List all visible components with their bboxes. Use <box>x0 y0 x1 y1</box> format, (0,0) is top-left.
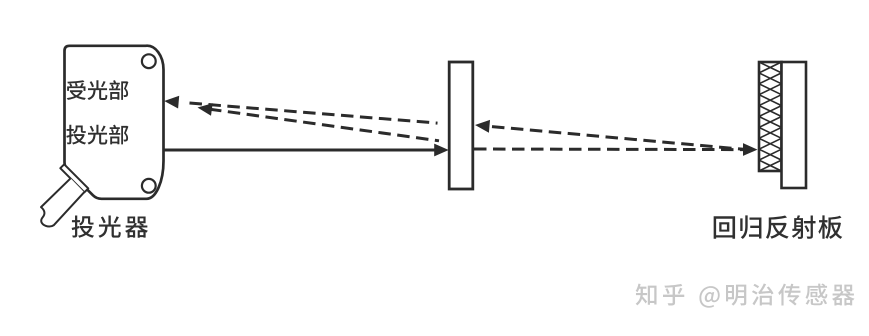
arrowhead into receiver (lower) <box>198 103 213 116</box>
solid beam arrowhead at target <box>434 144 449 157</box>
watermark 知乎 @明治传感器 <box>636 284 657 306</box>
screw hole top <box>142 54 156 68</box>
label 投光器 (projector) <box>72 215 94 237</box>
arrowhead into reflector <box>743 143 758 156</box>
sensor body (photoelectric head) <box>65 46 164 199</box>
cable with break end <box>41 178 84 226</box>
dashed beam reflector-to-object wire <box>489 126 749 150</box>
arrowhead at object right side <box>475 120 490 133</box>
dashed beam object-to-reflector wire <box>474 148 743 152</box>
solid emitted-beam wire <box>164 149 437 152</box>
dashed return beam lower-left wire <box>209 109 439 141</box>
screw hole bottom <box>142 179 156 193</box>
detected object (vertical plate) <box>449 62 473 189</box>
reflector backing plate <box>782 62 807 188</box>
dashed return beam upper-left wire <box>183 103 438 124</box>
cable collar <box>60 164 88 192</box>
reflector hatch pattern <box>759 62 782 171</box>
label 回归反射板 (retroreflector plate) <box>714 216 735 239</box>
arrowhead into receiver (upper) <box>164 96 179 109</box>
reflector hatched strip <box>759 62 782 171</box>
label 受光部 (receiver) <box>67 80 86 100</box>
label 投光部 (emitter) <box>66 125 86 145</box>
